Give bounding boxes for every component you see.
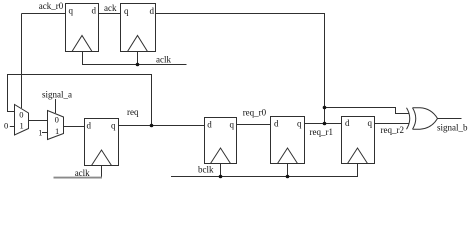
svg-text:bclk: bclk: [198, 165, 214, 175]
svg-text:ack: ack: [104, 3, 117, 13]
svg-text:aclk: aclk: [75, 168, 90, 178]
svg-text:q: q: [69, 6, 74, 16]
svg-text:req_r0: req_r0: [243, 108, 267, 118]
svg-text:1: 1: [38, 128, 42, 138]
svg-text:req: req: [127, 107, 139, 117]
svg-text:1: 1: [55, 126, 59, 136]
svg-text:1: 1: [20, 121, 24, 131]
svg-text:q: q: [368, 118, 373, 128]
svg-text:signal_b: signal_b: [437, 123, 468, 133]
svg-text:q: q: [124, 6, 129, 16]
svg-text:req_r2: req_r2: [381, 125, 405, 135]
svg-text:d: d: [92, 6, 97, 16]
svg-text:d: d: [274, 119, 279, 129]
svg-text:q: q: [111, 121, 116, 131]
svg-text:signal_a: signal_a: [42, 90, 72, 100]
svg-text:d: d: [87, 121, 92, 131]
svg-text:0: 0: [4, 121, 8, 131]
svg-text:aclk: aclk: [156, 55, 171, 65]
svg-text:d: d: [207, 119, 212, 129]
svg-text:d: d: [345, 118, 350, 128]
svg-text:ack_r0: ack_r0: [39, 1, 64, 11]
svg-text:req_r1: req_r1: [310, 127, 334, 137]
svg-text:q: q: [297, 119, 302, 129]
svg-text:q: q: [230, 119, 235, 129]
svg-text:d: d: [150, 6, 155, 16]
svg-text:0: 0: [55, 114, 59, 124]
svg-text:0: 0: [19, 110, 23, 120]
